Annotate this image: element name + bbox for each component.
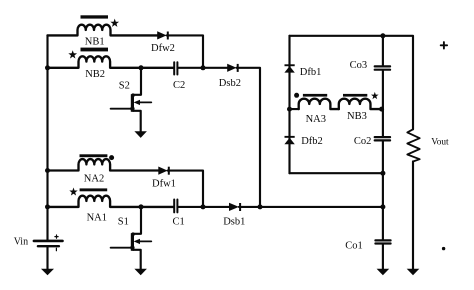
- mosfet S2 gate contact blob: [130, 107, 134, 111]
- svg-text:Dfw1: Dfw1: [152, 179, 176, 190]
- wire bottom rail Dsb1 to Co1 column: [239, 206, 383, 208]
- junction node Dsb2 column joins bottom rail: [258, 204, 263, 209]
- wire NB1 to Dfw2 then corner down: [167, 35, 203, 67]
- capacitor Co2 plates: [375, 137, 390, 140]
- svg-text:Dsb2: Dsb2: [219, 78, 241, 89]
- svg-text:Vin: Vin: [14, 237, 28, 248]
- polarity dot NA2: [109, 155, 114, 160]
- svg-text:Dfw2: Dfw2: [151, 43, 175, 54]
- junction node NA2-rail: [45, 168, 50, 173]
- core bar NA3: [303, 94, 327, 97]
- svg-text:NB3: NB3: [347, 111, 367, 122]
- junction node box bottom right: [380, 171, 385, 176]
- star marker NB2: [68, 50, 77, 58]
- svg-text:NA1: NA1: [87, 213, 107, 224]
- svg-text:Co3: Co3: [350, 60, 368, 71]
- ground arrow under Vout line: [407, 269, 420, 276]
- wire Co1 column: [382, 207, 384, 269]
- inductor NB2 winding and leads: [48, 56, 174, 68]
- diode Dsb2: [227, 64, 236, 72]
- battery minus mark: [55, 248, 57, 251]
- wire NA3 NB3 baseline: [290, 108, 299, 110]
- wire resistor to bottom arrow: [412, 162, 414, 270]
- mosfet S1 gate lead: [111, 247, 132, 249]
- junction node box left / NA3 wire: [287, 107, 292, 112]
- junction node NA1-rail: [45, 204, 50, 209]
- svg-text:Vout: Vout: [431, 138, 449, 148]
- junction node Co1 top: [380, 204, 385, 209]
- mosfet S1 arrow: [134, 239, 140, 244]
- battery plus mark: [55, 235, 58, 238]
- wire C1 to Dsb1: [178, 206, 229, 208]
- plus sign output terminal: [441, 42, 447, 48]
- mosfet S1 source wire: [133, 250, 141, 269]
- junction node S1 drain tap: [139, 204, 144, 209]
- svg-text:Co2: Co2: [354, 136, 372, 147]
- feedback box top wire: [290, 35, 383, 37]
- svg-text:Dsb1: Dsb1: [223, 217, 245, 228]
- polarity dot NA3: [294, 93, 299, 98]
- mosfet S1 drain wire: [133, 207, 141, 234]
- junction node box right / NB3 wire: [379, 107, 384, 112]
- feedback box right edge lower (through Co2 gap): [382, 142, 384, 207]
- star marker NA1: [69, 188, 77, 196]
- capacitor C2 plates: [174, 62, 177, 74]
- inductor NB3 winding: [339, 99, 383, 109]
- junction node NB2-rail: [45, 65, 50, 70]
- wire Dfw1 to corner down to bottom rail: [168, 171, 203, 207]
- svg-text:Co1: Co1: [345, 240, 363, 251]
- inductor NA2 winding and leads: [48, 159, 159, 170]
- mosfet S1 drain contact blob: [131, 232, 135, 236]
- svg-text:S2: S2: [119, 81, 130, 92]
- feedback box right edge upper (through Co3 gap): [382, 36, 384, 136]
- star marker NB1: [110, 19, 119, 27]
- ground arrow under S1: [134, 269, 147, 276]
- junction node box top right: [380, 33, 385, 38]
- core bar NA1: [80, 188, 108, 191]
- capacitor C1 plates: [174, 200, 177, 213]
- svg-text:NB1: NB1: [85, 36, 105, 47]
- mosfet S2 arrow stub: [139, 101, 151, 103]
- star marker NB3: [371, 92, 379, 99]
- capacitor Co1 plates: [375, 240, 390, 243]
- core bar NA2: [80, 154, 108, 157]
- mosfet S1 channel bar: [131, 233, 134, 251]
- mosfet S2 arrow: [134, 100, 140, 105]
- feedback box left edge: [288, 36, 290, 173]
- diode Dfb2: [284, 138, 294, 145]
- ground arrow under S2: [134, 131, 147, 138]
- mosfet S1 gate contact blob: [130, 246, 134, 250]
- mosfet S2 drain contact blob: [131, 93, 135, 97]
- diode Dfw2: [157, 31, 166, 39]
- inductor NA1 winding and leads: [48, 196, 174, 207]
- wire C2 right side to Dsb2 and corner down: [178, 67, 227, 69]
- diode Dsb1: [229, 203, 239, 211]
- svg-text:Dfb2: Dfb2: [301, 136, 323, 147]
- inductor NA3 winding: [299, 99, 339, 109]
- wire battery to ground arrow: [46, 246, 48, 269]
- diode Dfw1: [158, 167, 167, 175]
- junction node Dfw1 join: [201, 204, 206, 209]
- wire Dsb2 to vertical joining bottom rail: [237, 68, 261, 207]
- mosfet S1 arrow stub: [139, 240, 151, 242]
- junction node S2 drain tap: [139, 65, 144, 70]
- mosfet S2 gate lead: [111, 108, 132, 110]
- wire output top to resistor: [383, 36, 413, 130]
- inductor NB1 winding and leads: [48, 25, 158, 36]
- svg-text:NA3: NA3: [306, 114, 326, 125]
- mosfet S2 channel bar: [131, 94, 134, 112]
- core bar NB3: [343, 94, 367, 97]
- svg-text:Dfb1: Dfb1: [300, 67, 322, 78]
- capacitor Co3 plates: [375, 66, 390, 69]
- svg-text:NA2: NA2: [84, 174, 104, 185]
- polarity dot output minus: [442, 247, 445, 250]
- core bar NB2: [81, 48, 109, 52]
- battery Vin bottom plate: [38, 245, 59, 247]
- ground arrow under Co1: [377, 269, 390, 276]
- junction node Dfw2 join: [201, 65, 206, 70]
- battery Vin top plate: [34, 240, 63, 243]
- ground arrow under Vin: [41, 269, 54, 276]
- mosfet S2 drain wire: [133, 68, 141, 95]
- core bar NB1: [81, 15, 109, 18]
- mosfet S2 source wire: [133, 111, 141, 132]
- feedback box bottom wire: [290, 172, 383, 174]
- svg-text:C2: C2: [173, 80, 185, 91]
- svg-text:C1: C1: [173, 217, 185, 228]
- wire left input rail: [46, 35, 48, 240]
- svg-text:NB2: NB2: [85, 69, 105, 80]
- resistor Vout zigzag: [407, 129, 419, 161]
- diode Dfb1: [284, 66, 294, 73]
- svg-text:S1: S1: [118, 216, 129, 227]
